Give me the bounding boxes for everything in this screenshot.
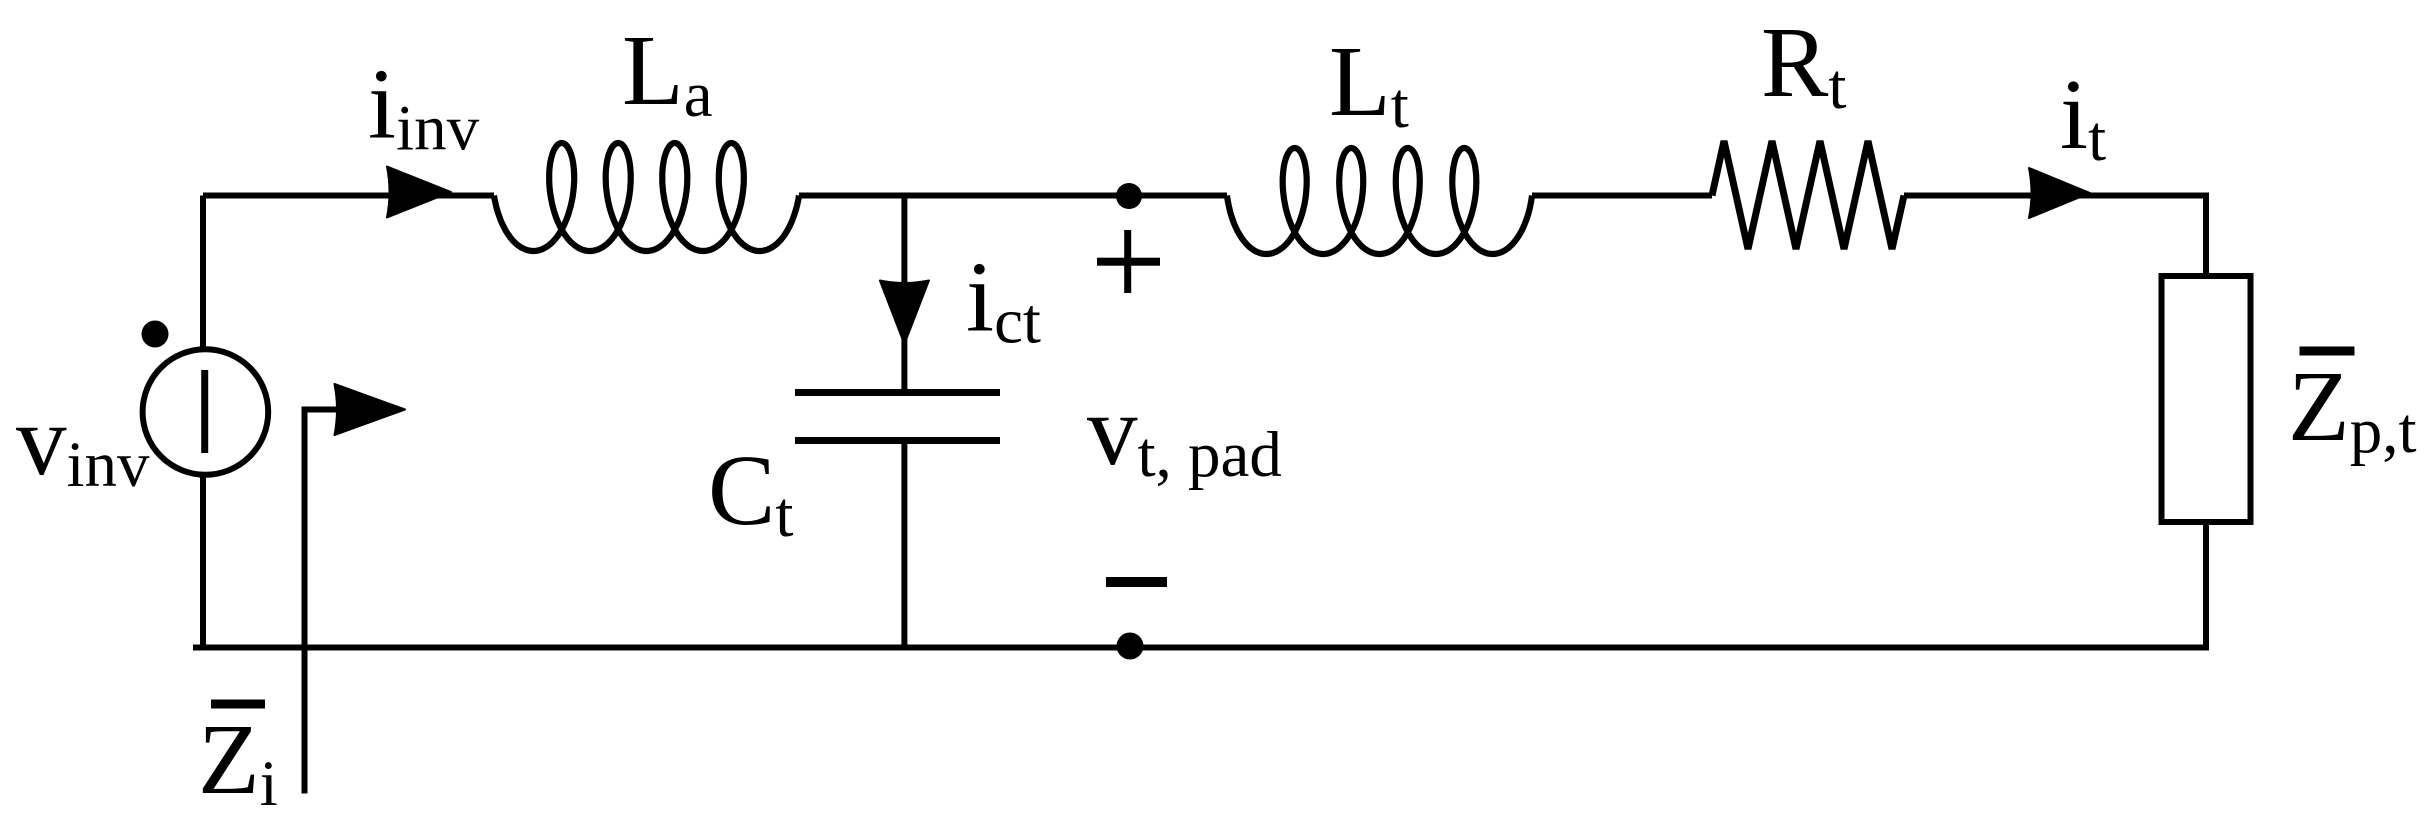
svg-text:Lt: Lt [1329,25,1409,142]
svg-text:vt, pad: vt, pad [1087,374,1282,491]
svg-text:iinv: iinv [368,48,480,165]
svg-text:Ct: Ct [708,434,793,551]
svg-text:it: it [2060,58,2106,175]
svg-text:ict: ict [966,241,1041,358]
svg-text:La: La [622,14,713,131]
svg-text:Rt: Rt [1761,6,1846,123]
svg-text:Zp,t: Zp,t [2288,350,2417,467]
svg-text:Zi: Zi [198,703,278,820]
svg-text:vinv: vinv [16,384,150,501]
